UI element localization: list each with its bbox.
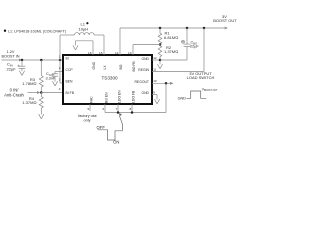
svg-text:CCP: CCP (66, 68, 74, 72)
wire pin5 factory stub (89, 104, 91, 111)
svg-text:3: 3 (59, 77, 61, 81)
svg-text:16: 16 (88, 51, 92, 55)
svg-text:OFF: OFF (97, 125, 106, 130)
svg-text:BI FB: BI FB (66, 91, 75, 95)
svg-text:4: 4 (59, 87, 61, 91)
svg-text:12: 12 (153, 56, 157, 60)
svg-text:11: 11 (153, 67, 156, 71)
svg-text:7: 7 (115, 107, 117, 111)
capacitor CBO (182, 28, 191, 60)
wire BEN to pin3 (60, 82, 63, 84)
svg-text:9: 9 (153, 90, 155, 94)
svg-text:10: 10 (153, 79, 157, 83)
svg-text:5: 5 (87, 107, 89, 111)
ground CIN (19, 71, 24, 76)
resistor R2 label (164, 45, 178, 54)
wire REGOUT riser to EN rail (165, 83, 167, 112)
wire gnd return to CBO (160, 59, 187, 61)
node junction gnd (159, 59, 162, 62)
node factory use only label (78, 114, 97, 122)
wire L1 riser and BEN riser (59, 35, 61, 83)
svg-text:BOOST OUT: BOOST OUT (213, 18, 237, 23)
wire OFF-ON pointer arrow (118, 113, 122, 131)
resistor R3 (39, 60, 43, 93)
node junction pin8 EN (131, 111, 134, 114)
node OFF ON switch label (97, 125, 120, 145)
ground pin12 (157, 61, 162, 69)
svg-text:Bst EN: Bst EN (104, 92, 108, 103)
svg-text:LX: LX (103, 65, 107, 70)
capacitor CCCP label (46, 72, 56, 80)
resistor R2 (158, 45, 162, 61)
node junction REGOUT (165, 82, 168, 85)
wire VBOOST waveform (187, 91, 207, 98)
svg-text:6.81MΩ: 6.81MΩ (164, 35, 178, 40)
svg-text:6: 6 (102, 107, 104, 111)
node junction R1 top (159, 27, 162, 30)
svg-text:1.37MΩ: 1.37MΩ (22, 100, 36, 105)
svg-text:1.37MΩ: 1.37MΩ (164, 49, 178, 54)
svg-text:22µF: 22µF (190, 44, 199, 48)
node ANTI-CRASH label (4, 87, 24, 97)
svg-text:LOAD SWITCH: LOAD SWITCH (187, 75, 215, 80)
svg-text:8: 8 (129, 107, 131, 111)
wire boost-in rail (20, 59, 64, 61)
node BOOST OUT label (213, 14, 237, 23)
svg-text:Anti-Crash: Anti-Crash (4, 92, 24, 97)
wire boost-in lead with arrow (2, 59, 23, 62)
node LOAD SWITCH label (187, 71, 215, 80)
svg-text:BO: BO (119, 64, 123, 69)
svg-text:13: 13 (128, 51, 132, 55)
resistor R1 (158, 28, 162, 45)
svg-text:GND: GND (141, 91, 149, 95)
resistor R3 label (22, 77, 36, 86)
ground pin9 (154, 99, 159, 104)
svg-text:1.78MΩ: 1.78MΩ (22, 81, 36, 86)
svg-text:1: 1 (59, 55, 61, 59)
node junction L1 (59, 59, 62, 62)
svg-text:FAC: FAC (89, 96, 93, 103)
wire boost out arrow (204, 27, 228, 30)
node junction CIN (21, 59, 24, 62)
svg-text:REGIN: REGIN (138, 68, 149, 72)
wire pin11 REGIN to boost rail (152, 28, 204, 72)
capacitor CBO label (190, 41, 199, 49)
wire pin12 to gnd node (152, 59, 160, 61)
wire pin9 to ground (152, 95, 157, 100)
resistor R4 (39, 93, 43, 115)
wire pin15 riser to L1 (103, 35, 105, 55)
svg-text:LDO FB: LDO FB (131, 90, 135, 103)
ground pin16 (73, 45, 78, 50)
inductor L1 (60, 33, 104, 35)
node junction FB divider (159, 43, 162, 46)
resistor R1 label (164, 31, 178, 40)
svg-text:1.2V: 1.2V (7, 50, 15, 54)
svg-text:2: 2 (59, 66, 61, 70)
svg-text:L1: LPS4018-103ML (COILCRAFT): L1: LPS4018-103ML (COILCRAFT) (8, 29, 66, 33)
svg-text:only: only (84, 118, 91, 122)
svg-text:3.3nF: 3.3nF (46, 77, 56, 81)
resistor R4 label (22, 96, 36, 105)
wire pin13 to divider (133, 45, 160, 56)
capacitor CIN (18, 60, 26, 71)
svg-text:BO FB: BO FB (132, 61, 136, 72)
svg-text:BEN: BEN (66, 80, 74, 84)
wire pin7 stub (117, 104, 119, 113)
node junction R3 (40, 59, 43, 62)
wire EN rail (105, 112, 166, 114)
ground CCCP (52, 81, 57, 86)
wire pin16 to ground (76, 41, 94, 55)
svg-text:TS3300: TS3300 (102, 75, 119, 80)
svg-text:10µH: 10µH (79, 27, 89, 32)
svg-text:14: 14 (115, 51, 119, 55)
wire boost out rail (120, 27, 204, 29)
svg-text:GND: GND (92, 61, 96, 69)
svg-text:LDO EN: LDO EN (117, 90, 121, 103)
capacitor CIN label (7, 62, 17, 72)
wire pin14 riser to boost rail (119, 28, 121, 55)
svg-text:GND: GND (141, 57, 149, 61)
node junction R3-R4 (40, 91, 43, 94)
svg-text:15: 15 (99, 51, 103, 55)
op-amp U1 TS3300 IC body (63, 55, 152, 104)
svg-text:REGOUT: REGOUT (134, 80, 149, 84)
node junction pin7 EN (117, 111, 120, 114)
svg-text:BI: BI (66, 57, 69, 61)
wire OFF-ON step waveform (98, 130, 123, 140)
wire pin6 stub (104, 104, 106, 113)
note: L1 part number (4, 29, 66, 33)
wire pin10 REGOUT output arrow (152, 82, 174, 85)
svg-text:VBOOST OUT: VBOOST OUT (202, 87, 218, 92)
inductor L1 label (79, 22, 89, 32)
svg-text:BOOST IN: BOOST IN (1, 55, 19, 59)
node junction CBO top (186, 27, 189, 30)
wire anti-crash lead (28, 91, 41, 94)
wire pin8 stub (131, 104, 133, 113)
wire node to pin4 (41, 92, 63, 94)
ground R4 (39, 114, 44, 119)
node junction REGIN riser top (203, 27, 206, 30)
svg-text:GND: GND (178, 96, 187, 100)
capacitor CCCP (52, 72, 63, 82)
svg-text:22µF: 22µF (7, 66, 17, 71)
